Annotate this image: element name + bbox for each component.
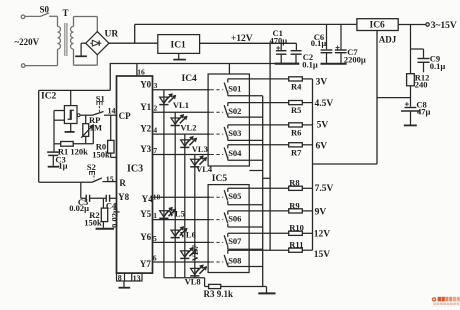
svg-text:S02: S02: [228, 106, 241, 116]
svg-text:4.5V: 4.5V: [315, 99, 334, 109]
svg-text:R4: R4: [291, 82, 302, 92]
svg-text:3~15V: 3~15V: [431, 21, 457, 31]
svg-text:0.1µ: 0.1µ: [430, 61, 446, 71]
svg-text:S0: S0: [40, 5, 50, 15]
svg-text:240: 240: [415, 79, 428, 89]
svg-text:470µ: 470µ: [270, 35, 288, 45]
svg-text:1M: 1M: [90, 122, 102, 132]
svg-text:15V: 15V: [314, 250, 331, 260]
svg-text:6V: 6V: [316, 142, 328, 152]
svg-text:Y5: Y5: [140, 209, 151, 219]
svg-text:S01: S01: [228, 83, 241, 93]
svg-text:R5: R5: [291, 105, 301, 115]
svg-text:2200µ: 2200µ: [344, 54, 366, 64]
svg-text:S08: S08: [228, 256, 241, 266]
svg-text:VL2: VL2: [180, 122, 196, 132]
svg-text:12V: 12V: [314, 229, 331, 239]
svg-text:T: T: [63, 8, 69, 18]
svg-text:VL1: VL1: [173, 100, 189, 110]
svg-text:R9: R9: [289, 200, 299, 210]
svg-text:R: R: [119, 178, 126, 188]
svg-text:IC2: IC2: [41, 92, 57, 102]
svg-text:R8: R8: [289, 178, 299, 188]
svg-text:2: 2: [154, 104, 158, 113]
svg-text:CP: CP: [119, 111, 131, 121]
svg-text:7.5V: 7.5V: [315, 184, 334, 194]
svg-text:4: 4: [153, 126, 157, 135]
svg-text:Y3: Y3: [140, 144, 151, 154]
svg-text:R10: R10: [289, 223, 304, 233]
svg-text:Y2: Y2: [140, 124, 151, 134]
svg-text:IC5: IC5: [212, 174, 228, 184]
svg-text:S04: S04: [228, 148, 242, 158]
svg-text:Y4: Y4: [142, 194, 153, 204]
svg-text:R11: R11: [289, 240, 303, 250]
svg-text:15: 15: [106, 175, 114, 184]
svg-text:UR: UR: [105, 30, 119, 40]
svg-text:5: 5: [153, 234, 157, 243]
svg-text:5V: 5V: [317, 121, 329, 131]
svg-text:S2: S2: [87, 162, 96, 172]
svg-text:VL5: VL5: [169, 209, 185, 219]
svg-text:VL6: VL6: [180, 230, 196, 240]
svg-text:150k: 150k: [92, 149, 110, 159]
svg-text:IC3: IC3: [127, 163, 143, 174]
svg-text:IC1: IC1: [171, 40, 187, 50]
svg-text:1µ: 1µ: [58, 161, 67, 171]
svg-text:7: 7: [153, 146, 157, 155]
svg-text:~220V: ~220V: [15, 37, 40, 47]
svg-text:+12V: +12V: [231, 34, 253, 44]
svg-text:VL3: VL3: [192, 144, 208, 154]
svg-text:ADJ: ADJ: [379, 34, 397, 44]
svg-text:Y0: Y0: [140, 79, 151, 89]
svg-text:9V: 9V: [315, 207, 327, 217]
svg-text:S07: S07: [228, 236, 242, 246]
svg-text:8: 8: [118, 274, 122, 283]
svg-text:Y1: Y1: [140, 102, 151, 112]
svg-text:S06: S06: [228, 213, 241, 223]
svg-text:0.1µ: 0.1µ: [302, 60, 318, 70]
svg-text:0.1µ: 0.1µ: [311, 38, 327, 48]
svg-text:Y8: Y8: [118, 192, 129, 202]
svg-text:6: 6: [153, 253, 157, 262]
svg-text:13: 13: [133, 274, 141, 283]
svg-text:0.02µ: 0.02µ: [69, 203, 89, 213]
svg-text:VL7: VL7: [190, 244, 200, 261]
svg-text:S05: S05: [228, 191, 241, 201]
svg-text:Y6: Y6: [140, 232, 151, 242]
svg-text:R6: R6: [291, 128, 301, 138]
svg-text:3V: 3V: [316, 77, 328, 87]
svg-text:0.02µ: 0.02µ: [109, 208, 119, 228]
svg-text:R7: R7: [291, 147, 302, 157]
svg-text:1: 1: [153, 211, 157, 220]
svg-text:S03: S03: [228, 128, 241, 138]
svg-text:Y7: Y7: [140, 259, 151, 269]
svg-text:IC6: IC6: [370, 21, 386, 31]
svg-text:IC4: IC4: [182, 74, 198, 84]
svg-text:150k: 150k: [84, 217, 102, 227]
svg-text:3: 3: [154, 81, 158, 90]
svg-text:14: 14: [108, 107, 116, 116]
svg-text:47µ: 47µ: [417, 107, 431, 117]
svg-text:R3 9.1k: R3 9.1k: [204, 289, 234, 299]
